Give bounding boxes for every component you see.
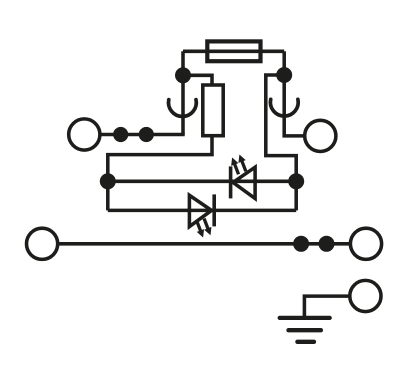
LED D1 arrow 2: [236, 153, 250, 173]
wire LED loop bottom: [108, 209, 296, 213]
LED D2 arrow 1: [200, 217, 214, 237]
node bottom dot 1: [293, 236, 309, 252]
node top-right junction: [276, 67, 292, 83]
terminal circle mid-left: [69, 119, 100, 150]
disconnect arc right: [270, 99, 298, 116]
wire left arc vertical: [181, 75, 185, 134]
LED D1 triangle: [233, 167, 255, 198]
wire top-left dot to resistor top: [183, 75, 212, 85]
terminal circle ground: [350, 280, 381, 311]
wire ground lead: [304, 296, 349, 318]
wire fuse top horizontal: [183, 50, 284, 54]
wire top-right dot detour to right vertical: [266, 75, 296, 210]
terminal circle bottom-left: [26, 228, 57, 259]
LED D2 cathode bar: [212, 194, 216, 226]
LED D1 cathode bar: [229, 166, 233, 198]
wire LED loop top: [108, 180, 296, 184]
ground bar 2: [289, 328, 321, 332]
node top-left junction: [175, 67, 191, 83]
wire resistor bottom lead to left vertical: [108, 136, 212, 211]
wire right drop from fuse: [282, 51, 286, 75]
node bottom dot 2: [319, 236, 335, 252]
node mid-right junction: [288, 173, 304, 189]
node mid-left dot 2: [139, 127, 154, 142]
fuse F1: [207, 41, 260, 61]
node mid-left dot 1: [113, 127, 128, 142]
wire right arc vertical to right terminal: [284, 75, 305, 136]
ground bar 1: [280, 316, 330, 320]
LED D2 triangle: [189, 195, 211, 226]
terminal circle mid-right: [305, 120, 336, 151]
LED D2 arrow 2: [193, 219, 207, 239]
terminal circle bottom-right: [350, 228, 381, 259]
LED D1 arrow 1: [228, 156, 242, 176]
wire mid-left terminal to arc line: [100, 133, 185, 137]
node mid-left junction: [100, 173, 116, 189]
ground bar 3: [297, 340, 314, 344]
disconnect arc left: [169, 100, 197, 117]
wire left drop from fuse: [181, 51, 185, 75]
wire bottom rail: [58, 242, 351, 246]
resistor R1: [203, 85, 223, 136]
